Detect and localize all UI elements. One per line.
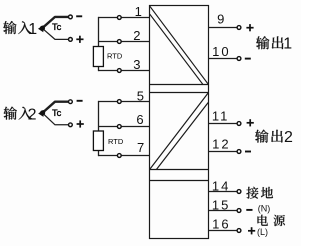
svg-text:2: 2: [28, 106, 37, 123]
wire terminal 9: [209, 27, 237, 29]
section divider line (bottom of channel-1 section): [150, 84, 209, 86]
thermocouple Tc input-1 junction dot: [40, 26, 45, 31]
label 输出2 (Output 2): [255, 130, 268, 143]
section divider line (bottom of channel-2 section): [150, 169, 209, 171]
thermocouple Tc input-2 thin leg (bent): [42, 113, 68, 125]
svg-text:3: 3: [133, 57, 140, 72]
stub RTD1 to wire 3: [98, 67, 100, 72]
Tc input-2 terminal circle (minus): [69, 100, 73, 104]
svg-text:1: 1: [135, 4, 142, 19]
wire terminal 1: [98, 17, 150, 19]
svg-text:(N): (N): [258, 204, 271, 214]
plus sign terminal 9: [246, 27, 253, 29]
isolation barrier diagonal B channel 1: [150, 14, 203, 84]
terminal circle 9: [237, 26, 241, 30]
svg-text:Tc: Tc: [52, 22, 62, 32]
svg-text:5: 5: [137, 89, 144, 104]
wire terminal 10: [209, 58, 237, 60]
isolation barrier diagonal B channel 2: [157, 103, 209, 170]
plus sign at Tc2: [77, 123, 84, 125]
plus sign at Tc1: [76, 38, 83, 40]
section divider line (top of power section): [150, 180, 209, 182]
wire terminal 14: [209, 191, 237, 193]
svg-text:(L): (L): [257, 227, 268, 237]
thermocouple Tc input-1 thick leg (bent): [42, 17, 68, 28]
Tc input-1 terminal circle (minus): [69, 15, 73, 19]
wire terminal 3: [98, 70, 150, 72]
wire terminal 11: [209, 123, 237, 125]
wire terminal 5: [98, 101, 150, 103]
minus sign terminal 10: [245, 58, 251, 60]
svg-text:10: 10: [212, 44, 230, 59]
terminal circle 2: [117, 40, 121, 44]
svg-text:16: 16: [212, 216, 230, 231]
svg-text:7: 7: [137, 140, 144, 155]
svg-text:9: 9: [217, 11, 224, 26]
vertical bus wire 5-6 to RTD2: [98, 101, 100, 131]
terminal circle 5: [117, 100, 121, 104]
terminal circle 10: [237, 57, 241, 61]
terminal circle 12: [237, 150, 241, 154]
svg-text:Tc: Tc: [52, 108, 62, 118]
label 接地 (ground): [246, 187, 258, 199]
svg-text:11: 11: [212, 109, 230, 124]
stub RTD2 to wire 7: [98, 151, 100, 157]
label 输入2 (Input 2): [4, 107, 17, 120]
svg-text:15: 15: [212, 198, 230, 213]
vertical bus wire 1-2 to RTD1: [98, 17, 100, 47]
terminal circle 6: [117, 125, 121, 129]
label 电源 (power): [257, 215, 267, 226]
Tc input-2 terminal circle (plus): [69, 123, 73, 127]
thermocouple Tc input-2 thick leg (bent): [42, 102, 68, 113]
wire terminal 6: [98, 126, 150, 128]
svg-text:2: 2: [284, 129, 293, 146]
isolator block U1 outline: [150, 6, 209, 239]
minus sign terminal 15: [246, 209, 252, 211]
resistor RTD2 body: [93, 131, 103, 151]
terminal circle 1: [117, 16, 121, 20]
svg-text:1: 1: [283, 36, 292, 53]
plus sign terminal 16: [248, 230, 255, 232]
wire terminal 2: [98, 41, 150, 43]
isolation barrier diagonal A channel 2: [150, 93, 208, 169]
terminal circle 16: [237, 229, 241, 233]
terminal circle 11: [237, 122, 241, 126]
plus sign terminal 11: [247, 122, 254, 124]
section divider line (top of channel-2 section): [150, 92, 209, 94]
terminal circle 7: [117, 154, 121, 158]
svg-text:12: 12: [212, 137, 230, 152]
thermocouple Tc input-2 junction dot: [40, 110, 45, 115]
Tc input-1 terminal circle (plus): [69, 38, 73, 42]
minus sign at Tc1: [76, 15, 82, 17]
svg-text:RTD: RTD: [108, 137, 124, 146]
wire terminal 7: [98, 155, 150, 157]
minus sign terminal 12: [245, 151, 251, 153]
svg-text:RTD: RTD: [107, 52, 123, 61]
svg-text:6: 6: [136, 112, 143, 127]
terminal circle 15: [237, 209, 241, 213]
terminal circle 14: [237, 190, 241, 194]
thermocouple Tc input-1 thin leg (bent): [42, 28, 68, 39]
wire terminal 12: [209, 151, 237, 153]
wire terminal 16: [209, 230, 237, 232]
terminal circle 3: [117, 69, 121, 73]
svg-text:1: 1: [28, 21, 37, 38]
label 输出1 (Output 1): [256, 36, 269, 49]
minus sign at Tc2: [77, 100, 83, 102]
svg-text:14: 14: [212, 178, 230, 193]
isolation barrier diagonal A channel 1: [150, 6, 208, 84]
label 输入1 (Input 1): [3, 21, 16, 34]
svg-text:2: 2: [133, 28, 140, 43]
resistor RTD1 body: [93, 47, 103, 67]
wire terminal 15: [209, 210, 237, 212]
